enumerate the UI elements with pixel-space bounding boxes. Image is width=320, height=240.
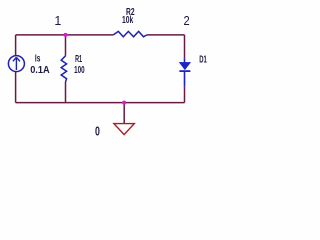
wire left: top corner down to Is top [15, 35, 17, 56]
svg-text:0.1A: 0.1A [30, 65, 49, 76]
wire bottom rail [16, 102, 185, 104]
resistor R2 zigzag body [113, 31, 147, 36]
current source Is circle [8, 56, 24, 72]
svg-text:1: 1 [54, 14, 61, 28]
junction ground dot [122, 101, 126, 105]
svg-text:R1: R1 [75, 54, 82, 65]
diode D1 cathode bar [179, 70, 190, 72]
current source Is arrow [13, 57, 20, 70]
ground symbol triangle [114, 124, 134, 135]
wire R1 branch bottom: R1 body to bottom rail [65, 82, 67, 103]
wire top: R2 right lead to right corner [147, 34, 185, 36]
svg-text:2: 2 [184, 14, 190, 28]
junction node 1 dot [64, 33, 68, 37]
svg-text:Is: Is [35, 54, 41, 65]
diode D1 cathode lead [184, 71, 186, 86]
svg-text:D1: D1 [199, 55, 207, 66]
resistor R1 zigzag body [61, 56, 66, 82]
diode D1 triangle [179, 62, 190, 69]
wire left: Is bottom down to bottom rail [15, 72, 17, 103]
svg-text:10k: 10k [122, 15, 133, 26]
wire right: node2 corner down to D1 anode [184, 35, 186, 58]
svg-text:0: 0 [95, 124, 100, 139]
diode D1 anode lead [184, 58, 186, 62]
svg-text:100: 100 [74, 65, 85, 76]
wire R1 branch top: node1 to R1 body [65, 35, 67, 56]
wire top: node1 rail from left corner to R2 left lead [16, 34, 114, 36]
wire right: D1 cathode down to bottom rail [184, 86, 186, 102]
wire ground stub [123, 103, 125, 124]
